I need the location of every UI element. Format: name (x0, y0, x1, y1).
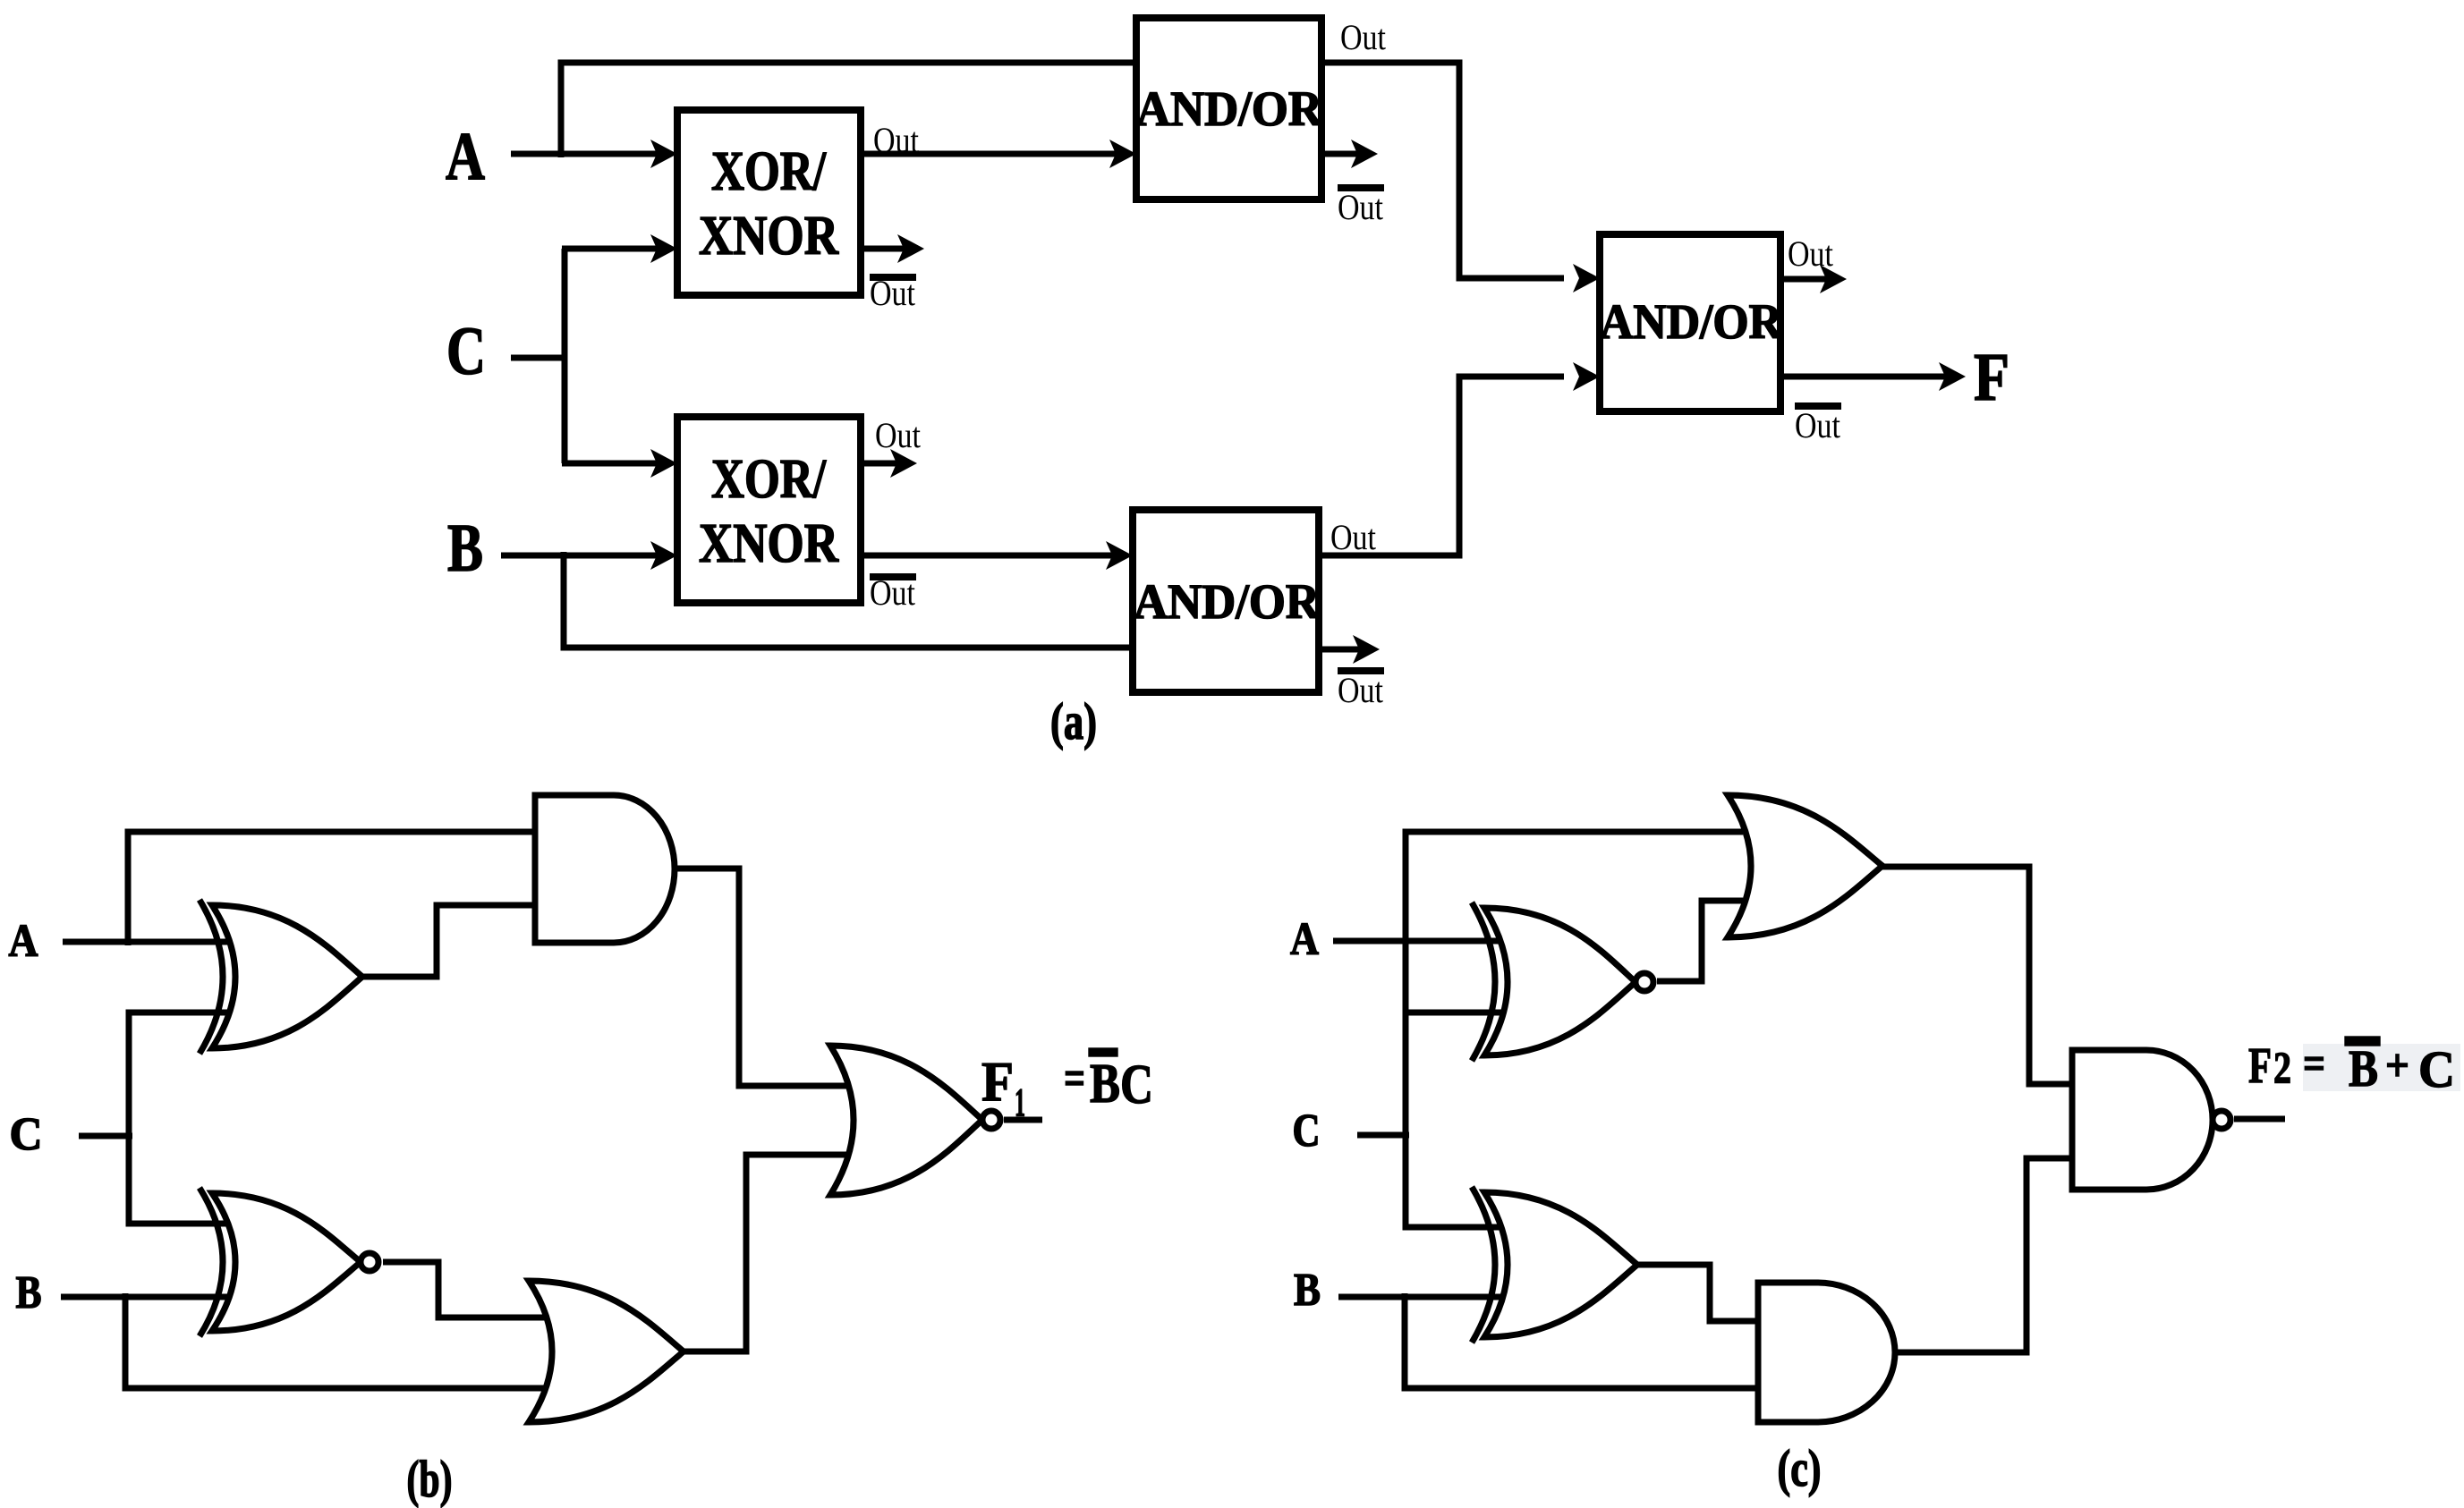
xor gate G1 (212, 905, 362, 1048)
wire U3 Out wire to AND/OR U5 (1321, 63, 1564, 278)
xnor gate G6 (1484, 908, 1636, 1055)
wire XNOR G6 out to OR G8 in2 (1657, 901, 1743, 981)
or gate G8 (1728, 795, 1882, 937)
svg-text:F: F (981, 1052, 1014, 1113)
wire C input (511, 355, 567, 361)
wire A input (b) (63, 939, 234, 945)
wire left rail (b): XOR G1 in2 / XNOR G2 in1 (129, 1012, 234, 1224)
wire B branch + bottom wire to OR G4 (125, 1293, 553, 1388)
label F1 = B-bar C (981, 1048, 1153, 1124)
arrowhead C into XOR/XNOR U2 in1 (562, 461, 658, 467)
arrowhead U1 Out into AND/OR U3 (1109, 140, 1136, 168)
wire U1 Out wire (861, 151, 1117, 157)
wire B branch + bottom wire to AND/OR U4 (564, 552, 1133, 648)
wire C input (c) (1357, 1132, 1409, 1139)
svg-text:Out: Out (875, 415, 921, 455)
svg-text:=: = (1064, 1051, 1085, 1106)
svg-text:A: A (1290, 914, 1319, 965)
svg-text:=: = (2303, 1038, 2325, 1089)
wire A branch + top wire to AND/OR U3 (561, 63, 1136, 157)
svg-text:F: F (1974, 340, 2009, 415)
U1 Outbar label (870, 274, 916, 281)
wire A branch + wire to AND G3 in1 (128, 832, 540, 945)
svg-text:AND/OR: AND/OR (1136, 81, 1323, 136)
AND/OR block U5 (1600, 234, 1780, 411)
svg-text:Out: Out (1788, 233, 1833, 274)
svg-text:C: C (10, 1109, 43, 1160)
svg-text:A: A (9, 916, 38, 967)
wire F output wire (1780, 374, 1946, 380)
or gate G4 (529, 1281, 684, 1422)
svg-text:1: 1 (1015, 1080, 1025, 1124)
svg-text:2: 2 (2273, 1042, 2291, 1092)
svg-text:(c): (c) (1778, 1439, 1822, 1497)
XOR/XNOR block U1 (677, 110, 861, 295)
U2 Outbar label (870, 573, 916, 580)
U3 Outbar label (1338, 184, 1384, 191)
wire U2 Outbar wire to AND/OR U4 (861, 553, 1117, 559)
arrowhead F (1939, 362, 1966, 391)
svg-text:(a): (a) (1050, 692, 1097, 750)
wire left rail (c) + top/bottom spurs (1406, 832, 1743, 1227)
nor gate G5 (830, 1046, 982, 1195)
svg-text:C: C (2418, 1040, 2455, 1098)
arrowhead A into XOR/XNOR U1 (559, 151, 658, 157)
wire XNOR G2 out to OR G4 in1 (383, 1262, 553, 1317)
wire OR G4 out to NOR G5 in2 (684, 1155, 850, 1351)
wire XOR G7 out to AND G9 in1 (1637, 1265, 1764, 1321)
svg-text:(b): (b) (407, 1450, 453, 1508)
svg-text:Out: Out (870, 273, 915, 313)
svg-text:XOR/: XOR/ (711, 141, 827, 202)
wire AND G3 out to NOR G5 in1 (675, 868, 850, 1086)
svg-text:XNOR: XNOR (699, 206, 839, 267)
AND/OR block U4 (1133, 510, 1319, 692)
U5 Out arrow (1780, 276, 1827, 283)
svg-text:C: C (1293, 1106, 1321, 1156)
svg-text:B: B (2349, 1039, 2378, 1097)
U1 Outbar arrow (861, 246, 905, 252)
svg-text:Out: Out (1340, 17, 1386, 57)
svg-text:B: B (1294, 1265, 1321, 1316)
svg-text:Out: Out (1338, 670, 1383, 710)
svg-text:AND/OR: AND/OR (1134, 574, 1321, 629)
svg-text:B: B (447, 511, 483, 586)
svg-text:XOR/: XOR/ (711, 449, 827, 510)
and gate G9 (1758, 1283, 1895, 1422)
svg-text:AND/OR: AND/OR (1600, 294, 1783, 349)
U3 Outbar arrow (1321, 151, 1358, 157)
svg-text:F: F (2248, 1038, 2272, 1094)
label F2 = B-bar + C (2303, 1044, 2460, 1091)
AND/OR block U3 (1136, 18, 1321, 199)
arrowhead C into XOR/XNOR U1 in2 (562, 246, 658, 252)
wire B input (b) (61, 1294, 234, 1300)
wire F1 output wire (1004, 1117, 1042, 1123)
wire A input (511, 151, 561, 157)
xor gate G7 (1484, 1192, 1637, 1337)
arrowhead U3 Out into AND/OR U5 (1573, 264, 1600, 292)
U4 Outbar arrow (1319, 647, 1360, 653)
svg-text:B: B (1090, 1054, 1120, 1114)
nand gate G10 (2072, 1050, 2213, 1190)
wire F2 output wire (2234, 1116, 2285, 1123)
svg-text:Out: Out (870, 572, 915, 613)
and gate G3 (535, 795, 675, 943)
wire XOR G1 out to AND G3 in2 (362, 905, 540, 977)
svg-text:B: B (16, 1267, 42, 1318)
wire A input (c) (1333, 938, 1507, 945)
svg-text:A: A (446, 119, 485, 194)
svg-text:Out: Out (1795, 405, 1840, 445)
svg-text:C: C (1120, 1055, 1153, 1115)
XOR/XNOR block U2 (677, 417, 861, 603)
svg-text:C: C (446, 314, 486, 389)
wire C input (b) (79, 1133, 132, 1139)
wire B branch + bottom wire to AND G9 (1405, 1293, 1764, 1388)
wire AND G9 out to NAND G10 in2 (1895, 1158, 2077, 1352)
svg-text:+: + (2385, 1040, 2409, 1091)
svg-text:Out: Out (1338, 187, 1383, 227)
svg-text:XNOR: XNOR (699, 513, 839, 574)
wire B input (c) (1338, 1294, 1507, 1300)
U5 Outbar label (1795, 402, 1841, 410)
wire U4 Out wire to AND/OR U5 (1319, 377, 1564, 555)
wire XNOR G6 in2 wire (1403, 1010, 1507, 1016)
wire OR G8 out to NAND G10 in1 (1882, 867, 2077, 1084)
arrowhead U4 Out into AND/OR U5 (1573, 362, 1600, 391)
svg-text:Out: Out (873, 120, 919, 160)
U2 Out arrow (861, 461, 897, 467)
arrowhead B into XOR/XNOR U2 in2 (569, 553, 658, 559)
U4 Outbar label (1338, 667, 1384, 674)
svg-text:Out: Out (1330, 517, 1376, 557)
arrowhead U2 Outbar into AND/OR U4 (1106, 541, 1133, 570)
wire B input (501, 553, 573, 559)
xnor gate G2 (212, 1193, 361, 1331)
wire C branch vertical (562, 249, 568, 463)
